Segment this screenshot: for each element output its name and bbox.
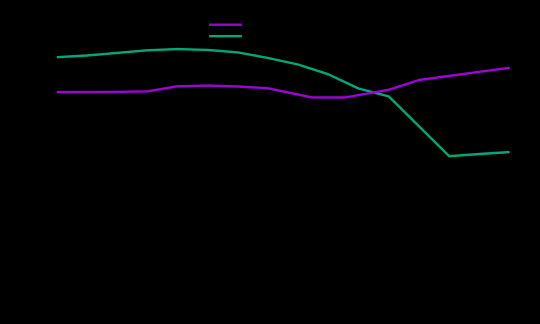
legend purple handle	[209, 24, 242, 26]
purple series line	[57, 68, 510, 98]
teal series line	[57, 49, 510, 156]
legend teal handle	[209, 35, 242, 37]
